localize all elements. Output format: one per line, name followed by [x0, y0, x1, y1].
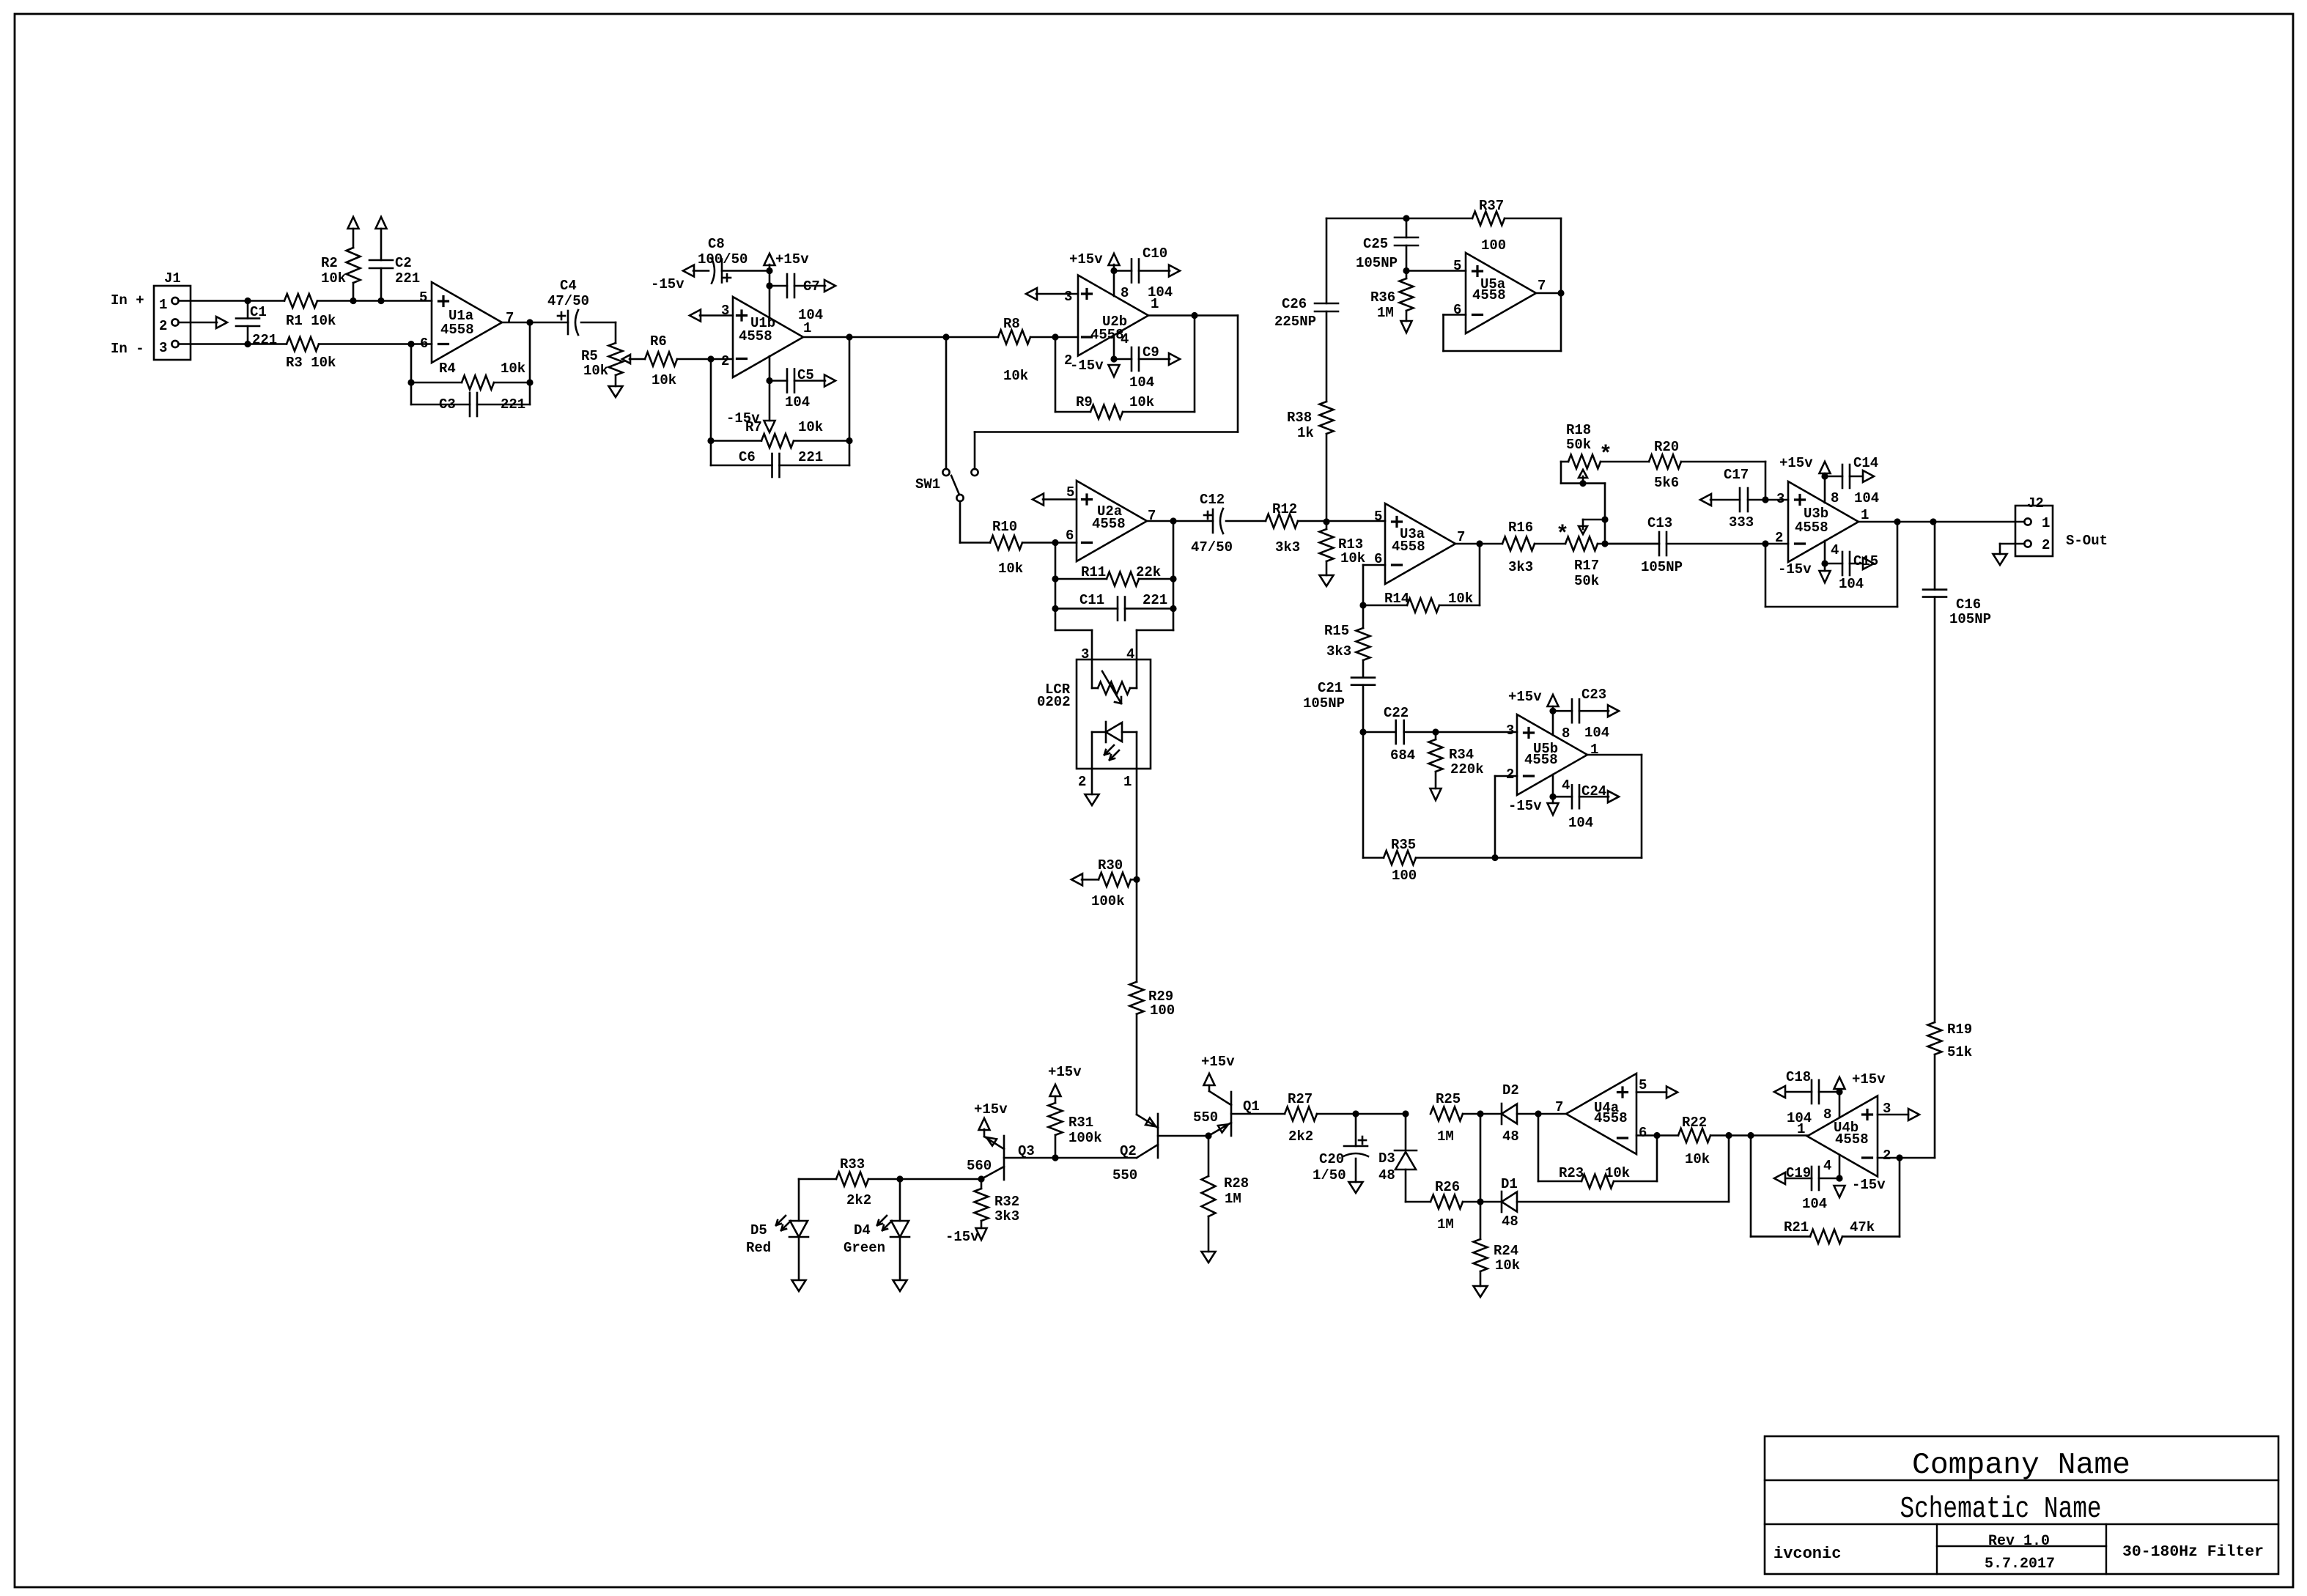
- svg-text:5: 5: [1374, 509, 1382, 525]
- svg-text:+15v: +15v: [1852, 1071, 1886, 1087]
- resistor R7: [707, 359, 852, 465]
- resistor R10: [990, 519, 1077, 577]
- resistor R37: [1406, 198, 1561, 254]
- node R7 loop: [846, 333, 852, 340]
- svg-text:221: 221: [798, 449, 823, 465]
- svg-text:J2: J2: [2027, 495, 2044, 511]
- svg-text:C1: C1: [250, 304, 267, 320]
- wire U3b pin3: [1765, 499, 1788, 501]
- title author: [1773, 1545, 1841, 1563]
- label S-Out: [2066, 533, 2108, 549]
- svg-text:C25: C25: [1363, 236, 1388, 252]
- node R14 left: [1359, 602, 1366, 608]
- svg-text:333: 333: [1729, 514, 1754, 531]
- svg-text:D3: D3: [1378, 1150, 1395, 1167]
- svg-text:2: 2: [721, 353, 729, 369]
- node C1 top: [244, 298, 251, 304]
- svg-text:104: 104: [785, 394, 810, 410]
- svg-text:3k3: 3k3: [1326, 643, 1351, 660]
- svg-text:C23: C23: [1581, 687, 1606, 703]
- svg-text:4558: 4558: [1090, 327, 1124, 343]
- svg-text:+15v: +15v: [775, 251, 809, 267]
- capacitor C14: [1825, 455, 1879, 506]
- svg-text:*: *: [1556, 522, 1569, 547]
- capacitor C9: [1114, 344, 1170, 391]
- potentiometer R18: [1561, 422, 1649, 484]
- svg-text:47/50: 47/50: [1191, 539, 1233, 555]
- op-amp U4b: [1797, 1096, 1891, 1177]
- svg-text:R1 10k: R1 10k: [286, 313, 336, 329]
- svg-text:R16: R16: [1508, 520, 1533, 536]
- svg-text:2k2: 2k2: [846, 1192, 871, 1208]
- capacitor C3: [411, 322, 530, 416]
- svg-text:D1: D1: [1501, 1176, 1518, 1192]
- power +15v arrow U5b: [1508, 689, 1559, 706]
- wire U2a pin5: [1033, 494, 1077, 506]
- op-amp U2b: [1064, 276, 1159, 369]
- wire U5b pin2: [1495, 776, 1517, 858]
- resistor R12: [1266, 501, 1385, 555]
- wire U3b pin4: [1824, 541, 1826, 571]
- node U1a out: [526, 319, 533, 325]
- svg-text:225NP: 225NP: [1274, 314, 1316, 330]
- svg-text:1: 1: [159, 297, 167, 313]
- svg-text:R18: R18: [1566, 422, 1591, 438]
- svg-text:C24: C24: [1581, 783, 1606, 799]
- capacitor C2: [369, 229, 420, 301]
- wire R18 to R17: [1583, 484, 1605, 520]
- svg-text:R14: R14: [1384, 591, 1409, 607]
- svg-text:R5: R5: [581, 348, 598, 364]
- svg-text:+15v: +15v: [1069, 251, 1103, 267]
- svg-text:5: 5: [419, 289, 427, 306]
- resistor R38: [1287, 402, 1334, 522]
- wire U5a pin6 loop: [1444, 293, 1562, 351]
- net arrow C15: [1863, 558, 1874, 569]
- svg-text:104: 104: [1839, 576, 1864, 592]
- svg-text:R7: R7: [745, 419, 762, 435]
- wire U2b out: [1148, 314, 1238, 317]
- node Q3 collector: [978, 1175, 984, 1182]
- ground R28: [1202, 1252, 1216, 1263]
- svg-text:-15v: -15v: [1508, 798, 1542, 814]
- power +15v arrow Q3: [974, 1101, 1008, 1130]
- svg-text:R4: R4: [439, 361, 456, 377]
- node U3b in+: [1762, 496, 1768, 503]
- svg-text:R20: R20: [1654, 439, 1679, 455]
- svg-text:4558: 4558: [1594, 1110, 1628, 1126]
- svg-text:R11: R11: [1081, 564, 1106, 580]
- resistor R14: [1363, 544, 1480, 613]
- node Q3 base: [1052, 1154, 1058, 1161]
- potentiometer R5: [581, 322, 645, 386]
- capacitor C8: [693, 236, 769, 284]
- svg-text:560: 560: [967, 1158, 992, 1174]
- node U3b out: [1894, 518, 1900, 525]
- resistor R33: [799, 1156, 981, 1208]
- svg-text:4558: 4558: [1472, 287, 1506, 303]
- transistor Q1: [1193, 1085, 1285, 1136]
- node C24: [1549, 794, 1556, 800]
- resistor R32: [975, 1179, 1020, 1228]
- wire U3a out: [1455, 543, 1502, 545]
- node C22 left: [1359, 728, 1366, 735]
- wire LCR pin3 jog: [1055, 630, 1092, 660]
- node R13 top: [1323, 518, 1329, 525]
- potentiometer R17: [1556, 522, 1659, 589]
- svg-text:1/50: 1/50: [1313, 1167, 1346, 1183]
- ground D4: [893, 1280, 907, 1291]
- wire Q3 base to Q2: [1055, 1157, 1137, 1159]
- resistor R20: [1649, 439, 1765, 500]
- op-amp U1a: [419, 282, 514, 363]
- svg-text:7: 7: [506, 310, 514, 326]
- ground J2: [1993, 544, 2025, 565]
- svg-text:C19: C19: [1786, 1165, 1811, 1181]
- svg-text:R31: R31: [1068, 1115, 1093, 1131]
- svg-text:D5: D5: [750, 1222, 767, 1238]
- node SW1 branch: [942, 333, 949, 340]
- svg-text:2k2: 2k2: [1288, 1128, 1313, 1145]
- svg-text:104: 104: [1802, 1196, 1827, 1212]
- svg-text:4: 4: [1562, 777, 1570, 794]
- svg-text:2: 2: [1078, 774, 1086, 790]
- title block frame: [1765, 1436, 2278, 1574]
- node U4a out: [1535, 1110, 1541, 1117]
- svg-text:Green: Green: [844, 1240, 885, 1256]
- node R17 right: [1601, 540, 1608, 547]
- svg-text:-15v: -15v: [651, 276, 684, 292]
- svg-text:R12: R12: [1272, 501, 1297, 517]
- wire U2b pin8: [1113, 265, 1115, 296]
- svg-text:104: 104: [1568, 815, 1593, 831]
- svg-text:8: 8: [1831, 490, 1839, 506]
- capacitor C25: [1356, 218, 1418, 271]
- capacitor C15: [1825, 552, 1878, 592]
- svg-text:R3 10k: R3 10k: [286, 355, 336, 371]
- resistor R3: [286, 337, 432, 371]
- net arrow C24: [1608, 791, 1619, 802]
- svg-text:1M: 1M: [1437, 1216, 1454, 1233]
- op-amp U3a: [1374, 503, 1465, 584]
- svg-text:C2: C2: [395, 255, 412, 271]
- node C19: [1836, 1175, 1842, 1181]
- svg-text:10k: 10k: [583, 363, 608, 379]
- wire U2b pin3: [1026, 288, 1078, 300]
- svg-text:5k6: 5k6: [1654, 475, 1679, 491]
- capacitor C22: [1363, 705, 1436, 764]
- power -15v arrow R36: [1401, 321, 1412, 333]
- svg-text:4558: 4558: [1392, 539, 1425, 555]
- node U3b in-: [1762, 540, 1768, 547]
- svg-text:Rev 1.0: Rev 1.0: [1988, 1533, 2050, 1550]
- node R26-D1: [1477, 1198, 1483, 1205]
- node R30: [1133, 876, 1140, 883]
- label In +: [111, 292, 144, 309]
- svg-text:3: 3: [1776, 491, 1784, 507]
- svg-text:220k: 220k: [1450, 761, 1484, 777]
- svg-text:R33: R33: [840, 1156, 865, 1172]
- svg-text:10k: 10k: [1129, 394, 1154, 410]
- svg-text:2: 2: [1775, 530, 1783, 546]
- wire U4b pin3: [1878, 1109, 1919, 1120]
- svg-text:R10: R10: [992, 519, 1017, 535]
- svg-text:10k: 10k: [1605, 1165, 1630, 1181]
- svg-text:R30: R30: [1098, 857, 1123, 873]
- svg-text:10k: 10k: [998, 561, 1023, 577]
- svg-text:R32: R32: [994, 1194, 1019, 1210]
- svg-text:R36: R36: [1370, 289, 1395, 306]
- net arrow C19: [1774, 1172, 1785, 1184]
- capacitor C10: [1114, 245, 1173, 300]
- power +15v arrow U3b: [1779, 455, 1831, 473]
- svg-text:+15v: +15v: [974, 1101, 1008, 1117]
- wiper R17: [1579, 516, 1609, 544]
- resistor R19: [1928, 1021, 1973, 1158]
- svg-text:100: 100: [1481, 237, 1506, 254]
- svg-text:1M: 1M: [1225, 1191, 1241, 1207]
- diode D3: [1378, 1114, 1417, 1202]
- node U4b in-: [1896, 1154, 1902, 1161]
- node R4 tap: [407, 341, 414, 347]
- op-amp U5b: [1506, 714, 1598, 795]
- transistor Q3: [967, 1129, 1055, 1180]
- resistor R21: [1751, 1136, 1900, 1244]
- resistor R1: [284, 294, 432, 329]
- svg-text:4558: 4558: [739, 328, 772, 344]
- svg-text:R26: R26: [1435, 1179, 1460, 1195]
- wire U4b pin2: [1878, 1157, 1935, 1159]
- power -15v arrow U1b: [726, 410, 775, 432]
- svg-text:C6: C6: [739, 449, 756, 465]
- svg-text:R21: R21: [1784, 1219, 1809, 1235]
- node C8: [766, 267, 772, 274]
- connector J1: [154, 270, 191, 360]
- svg-text:C5: C5: [797, 367, 814, 383]
- capacitor C18: [1786, 1069, 1839, 1126]
- capacitor C16: [1923, 522, 1991, 1022]
- capacitor C6: [711, 337, 849, 477]
- node U2b in-: [1052, 333, 1058, 340]
- svg-text:105NP: 105NP: [1949, 611, 1991, 627]
- svg-text:1M: 1M: [1377, 305, 1394, 321]
- svg-text:0202: 0202: [1037, 694, 1071, 710]
- node C10: [1110, 267, 1117, 274]
- wire J1-2 arrow: [179, 317, 228, 328]
- resistor R4: [407, 344, 533, 405]
- LED D4: [844, 1179, 909, 1279]
- svg-text:R38: R38: [1287, 410, 1312, 426]
- svg-text:C13: C13: [1647, 515, 1672, 531]
- net arrow C7: [824, 280, 835, 292]
- net arrow C10: [1169, 265, 1180, 277]
- svg-text:4558: 4558: [1795, 520, 1828, 536]
- svg-text:R28: R28: [1224, 1175, 1249, 1192]
- wire U4b pin8: [1839, 1092, 1841, 1117]
- wire R25 down: [1480, 1114, 1482, 1202]
- node C9: [1110, 355, 1117, 362]
- node U5a out: [1557, 289, 1564, 296]
- svg-text:C22: C22: [1384, 705, 1409, 721]
- node U2a out: [1170, 517, 1176, 524]
- node R2 bottom: [350, 298, 356, 304]
- svg-text:C4: C4: [560, 278, 577, 294]
- svg-text:R37: R37: [1479, 198, 1504, 214]
- svg-text:Q3: Q3: [1018, 1143, 1035, 1159]
- svg-text:4558: 4558: [440, 322, 474, 338]
- svg-text:104: 104: [798, 307, 823, 323]
- svg-text:-15v: -15v: [945, 1229, 979, 1245]
- op-amp U4a: [1555, 1074, 1647, 1154]
- wire to U4a: [1538, 1113, 1566, 1115]
- svg-text:-15v: -15v: [1070, 358, 1104, 374]
- svg-text:-15v: -15v: [1852, 1177, 1886, 1193]
- resistor R30: [1071, 857, 1137, 909]
- svg-text:10k: 10k: [1685, 1151, 1710, 1167]
- wire U2a out: [1147, 520, 1213, 522]
- svg-text:10k: 10k: [1448, 591, 1473, 607]
- svg-text:D4: D4: [854, 1222, 871, 1238]
- svg-text:C9: C9: [1143, 344, 1159, 361]
- svg-text:Schematic Name: Schematic Name: [1900, 1493, 2102, 1526]
- transistor Q2: [1112, 1114, 1208, 1183]
- power +15v arrow U1b: [764, 251, 810, 267]
- svg-text:4558: 4558: [1092, 516, 1126, 532]
- svg-text:10k: 10k: [652, 372, 676, 388]
- node R18 wiper: [1579, 480, 1586, 487]
- capacitor C19: [1786, 1165, 1839, 1212]
- resistor R6: [645, 333, 733, 388]
- svg-text:51k: 51k: [1947, 1044, 1972, 1060]
- svg-text:221: 221: [501, 396, 525, 413]
- resistor R34: [1429, 732, 1484, 788]
- power +15v arrow U2b: [1069, 251, 1120, 267]
- wire U3a pin6: [1363, 565, 1385, 605]
- resistor R23: [1538, 1114, 1657, 1189]
- svg-text:10k: 10k: [798, 419, 823, 435]
- wire U1b pin3: [690, 310, 733, 322]
- capacitor C4: [547, 278, 616, 335]
- svg-text:104: 104: [1129, 374, 1154, 391]
- svg-text:C12: C12: [1200, 492, 1225, 508]
- wire to U5b pin3: [1436, 731, 1517, 734]
- ground R13: [1320, 575, 1334, 586]
- svg-text:2: 2: [1883, 1148, 1891, 1164]
- node D4 tap: [896, 1175, 903, 1182]
- switch SW1: [915, 337, 978, 501]
- capacitor C20: [1313, 1114, 1368, 1183]
- svg-text:R2: R2: [321, 255, 338, 271]
- svg-text:10k: 10k: [321, 270, 346, 287]
- svg-text:C17: C17: [1724, 467, 1749, 483]
- svg-text:3: 3: [1506, 723, 1514, 739]
- resistor R26: [1406, 1179, 1502, 1233]
- net arrow C9: [1169, 353, 1180, 365]
- svg-text:105NP: 105NP: [1303, 695, 1345, 712]
- wire U1b pin4: [769, 356, 771, 421]
- svg-text:4: 4: [1831, 542, 1839, 558]
- svg-text:4: 4: [1121, 331, 1129, 347]
- ground R5: [609, 386, 623, 397]
- svg-text:105NP: 105NP: [1356, 255, 1398, 271]
- wire U1b out: [803, 336, 998, 339]
- power -15v arrow U5b: [1508, 798, 1559, 815]
- power +15v arrow C2: [376, 217, 387, 229]
- diode D1: [1501, 1176, 1729, 1230]
- svg-text:8: 8: [1562, 725, 1570, 742]
- svg-text:J1: J1: [164, 270, 181, 287]
- resistor R28: [1202, 1136, 1250, 1252]
- svg-text:4558: 4558: [1524, 752, 1558, 768]
- svg-text:C21: C21: [1318, 680, 1343, 696]
- svg-text:+15v: +15v: [1048, 1064, 1082, 1080]
- svg-text:50k: 50k: [1574, 573, 1599, 589]
- svg-text:100k: 100k: [1091, 893, 1125, 909]
- node U4a in-: [1653, 1132, 1660, 1139]
- capacitor C11: [1052, 521, 1176, 630]
- node C2 bottom: [377, 298, 384, 304]
- ground C20: [1349, 1182, 1363, 1193]
- resistor R25: [1431, 1091, 1502, 1145]
- power -15v arrow U3b: [1778, 561, 1831, 583]
- svg-text:5: 5: [1066, 484, 1074, 500]
- svg-text:221: 221: [395, 270, 420, 287]
- LED in LCR: [1092, 722, 1137, 769]
- svg-text:1: 1: [2042, 515, 2050, 531]
- svg-text:5: 5: [1453, 258, 1461, 274]
- svg-text:48: 48: [1502, 1128, 1519, 1145]
- wire U3b pin2: [1765, 543, 1788, 545]
- resistor R24: [1474, 1202, 1521, 1286]
- op-amp U1b: [721, 297, 811, 377]
- wire U4a pin5: [1636, 1087, 1677, 1098]
- svg-text:R15: R15: [1324, 623, 1349, 639]
- svg-text:C14: C14: [1853, 455, 1878, 471]
- svg-text:10k: 10k: [501, 361, 525, 377]
- node U2a in-: [1052, 539, 1058, 546]
- svg-text:C8: C8: [708, 236, 725, 252]
- svg-text:1M: 1M: [1437, 1128, 1454, 1145]
- title schematic name: [1900, 1493, 2102, 1526]
- svg-text:4558: 4558: [1835, 1131, 1869, 1148]
- svg-text:684: 684: [1390, 747, 1415, 764]
- svg-text:550: 550: [1112, 1167, 1137, 1183]
- svg-text:+15v: +15v: [1779, 455, 1813, 471]
- svg-text:3k3: 3k3: [994, 1208, 1019, 1224]
- resistor R13: [1320, 522, 1366, 575]
- svg-text:104: 104: [1787, 1110, 1812, 1126]
- capacitor C7: [769, 274, 825, 323]
- svg-text:7: 7: [1538, 278, 1546, 294]
- wire U5b pin8: [1552, 706, 1554, 735]
- capacitor C17: [1700, 467, 1765, 531]
- svg-text:550: 550: [1193, 1109, 1218, 1126]
- power -15v arrow C8: [651, 265, 694, 293]
- svg-text:R9: R9: [1076, 394, 1093, 410]
- svg-text:1: 1: [1123, 774, 1132, 790]
- power +15v arrow R31: [1048, 1064, 1082, 1096]
- svg-text:R34: R34: [1449, 747, 1474, 763]
- svg-text:S-Out: S-Out: [2066, 533, 2108, 549]
- wire U3b pin8: [1824, 473, 1826, 503]
- wire U1a out: [502, 322, 568, 324]
- ground R24: [1474, 1286, 1488, 1297]
- wire J1-1 to R1: [179, 300, 285, 302]
- node C15: [1821, 560, 1828, 566]
- svg-text:100: 100: [1150, 1002, 1175, 1019]
- node U2b out: [1191, 312, 1197, 319]
- wire SW1 throw2: [975, 316, 1238, 470]
